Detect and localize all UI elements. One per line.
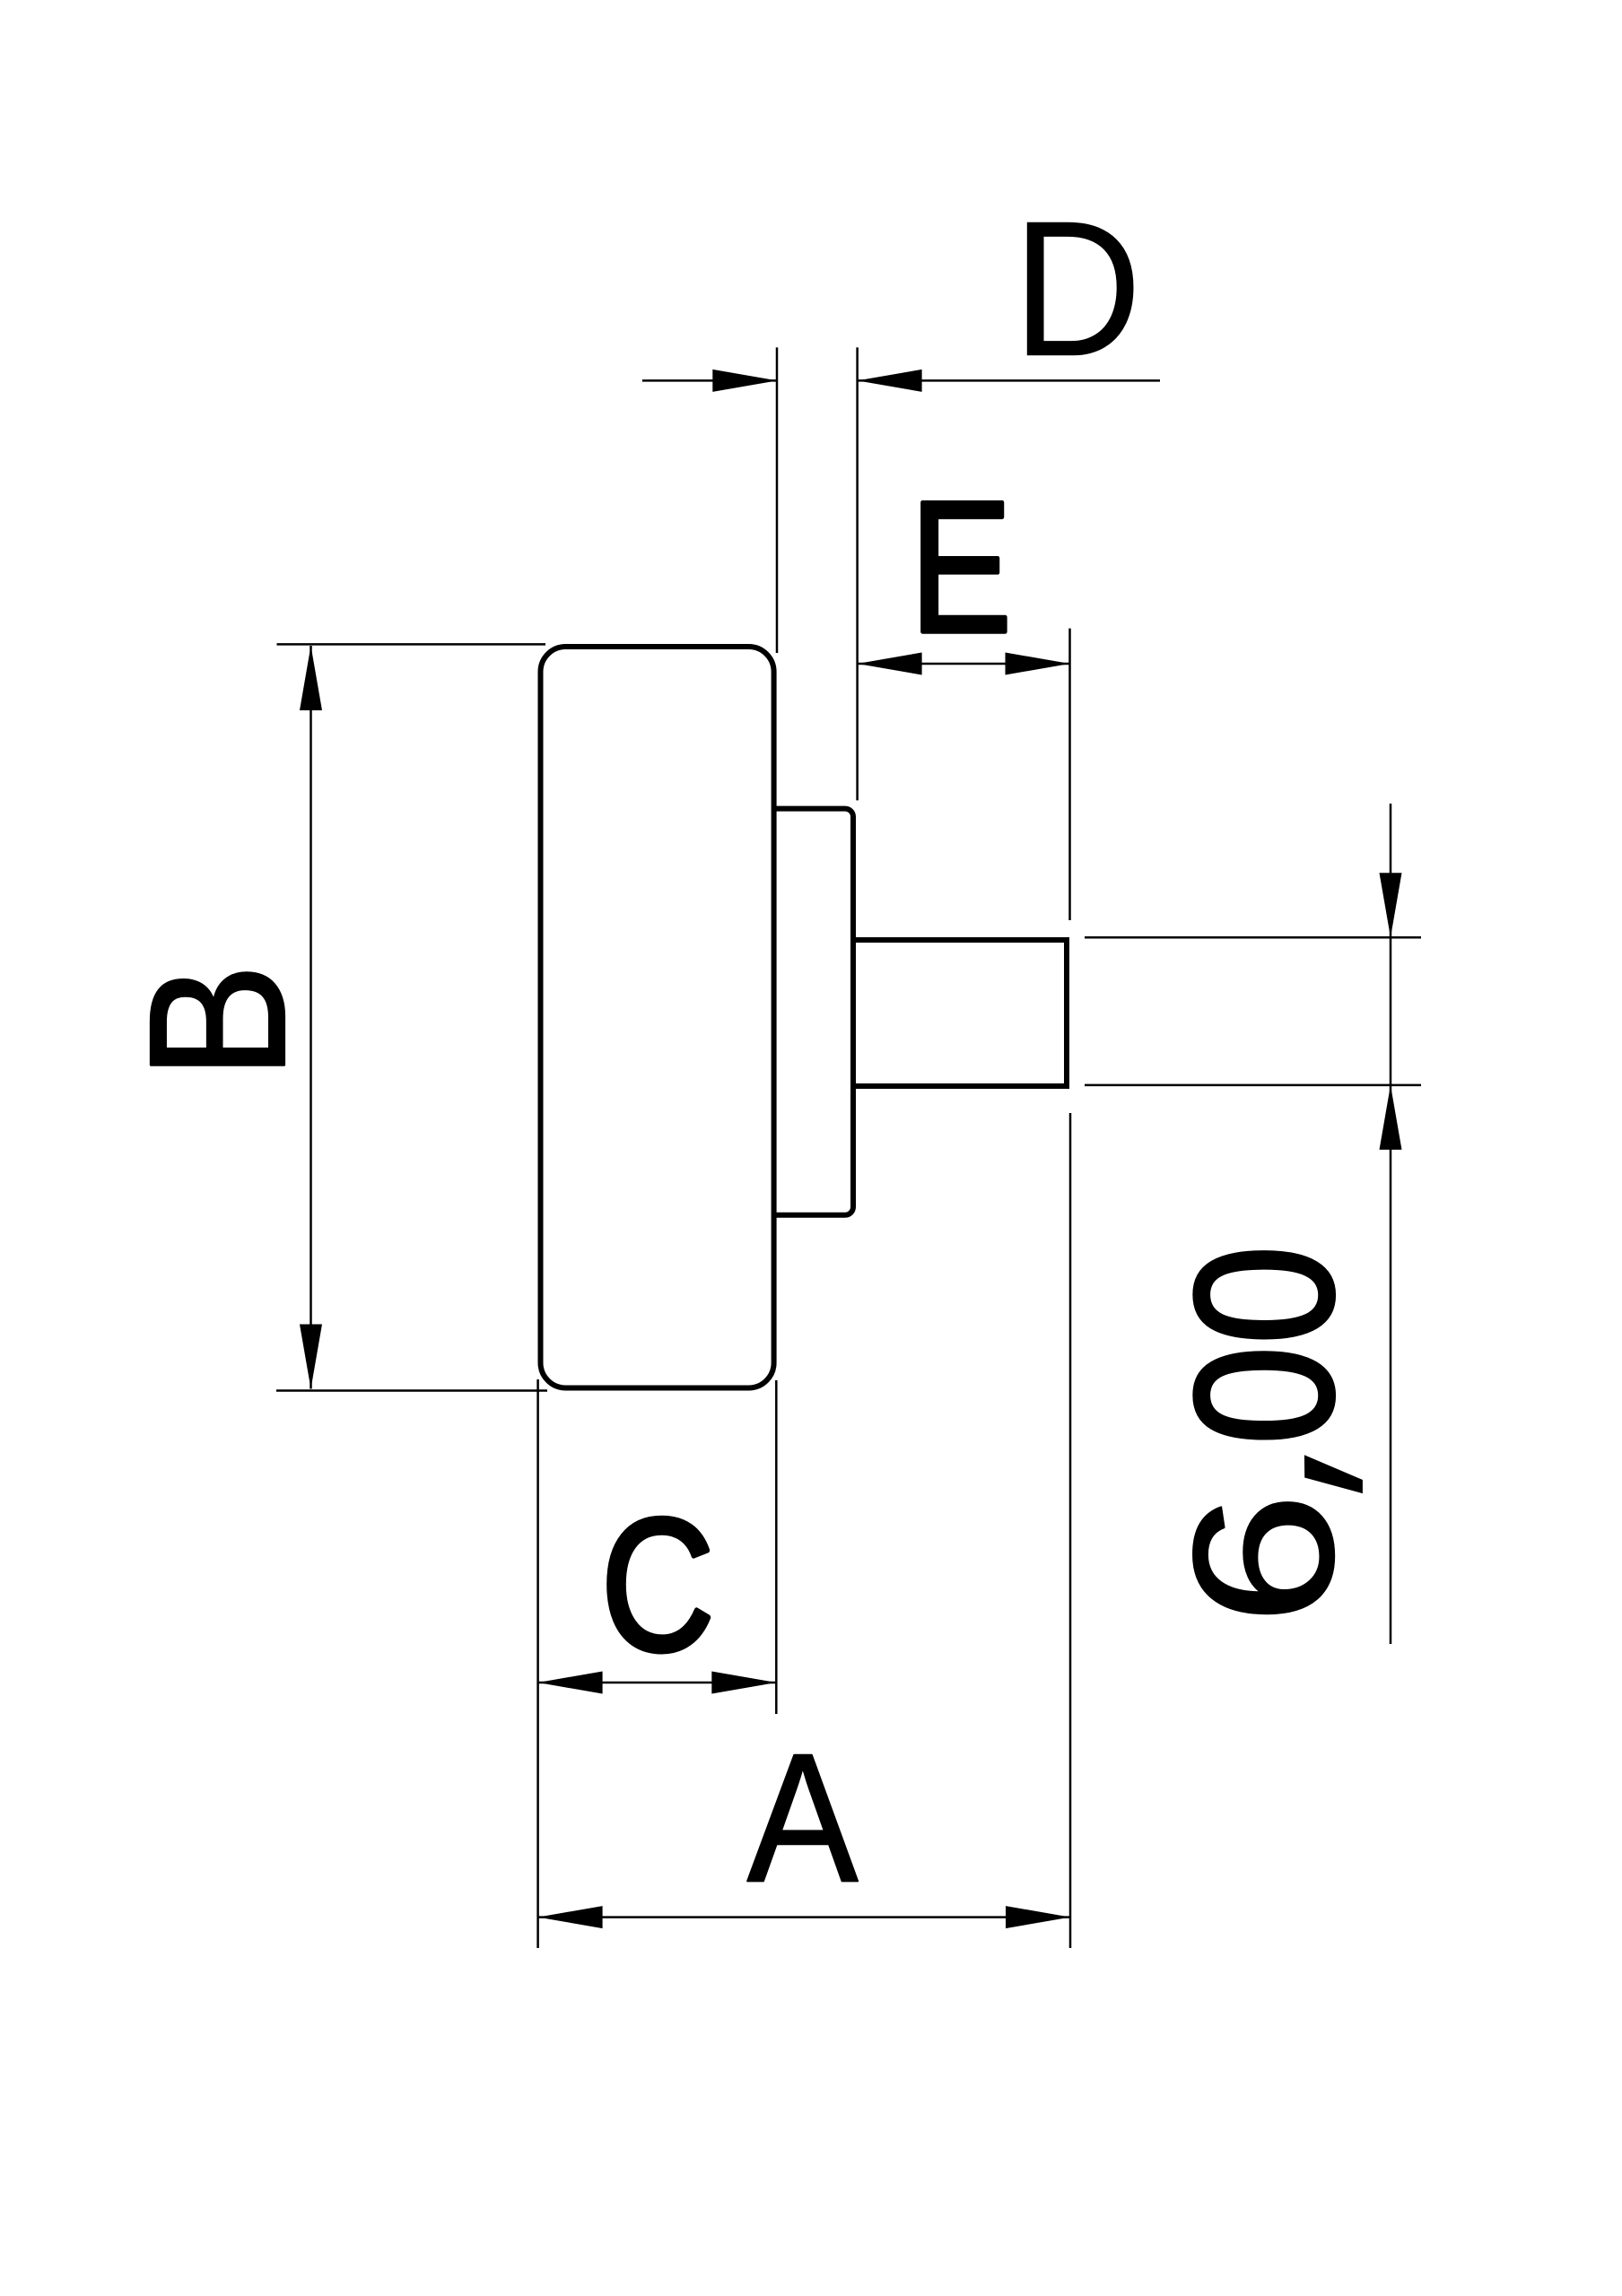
svg-text:A: A <box>747 1716 859 1920</box>
svg-text:D: D <box>1012 180 1142 397</box>
svg-text:B: B <box>110 963 326 1079</box>
svg-text:6: 6 <box>1153 1492 1375 1626</box>
svg-text:C: C <box>601 1479 715 1689</box>
svg-text:E: E <box>910 463 1012 672</box>
svg-text:0: 0 <box>1154 1245 1374 1344</box>
svg-text:0: 0 <box>1154 1345 1374 1445</box>
